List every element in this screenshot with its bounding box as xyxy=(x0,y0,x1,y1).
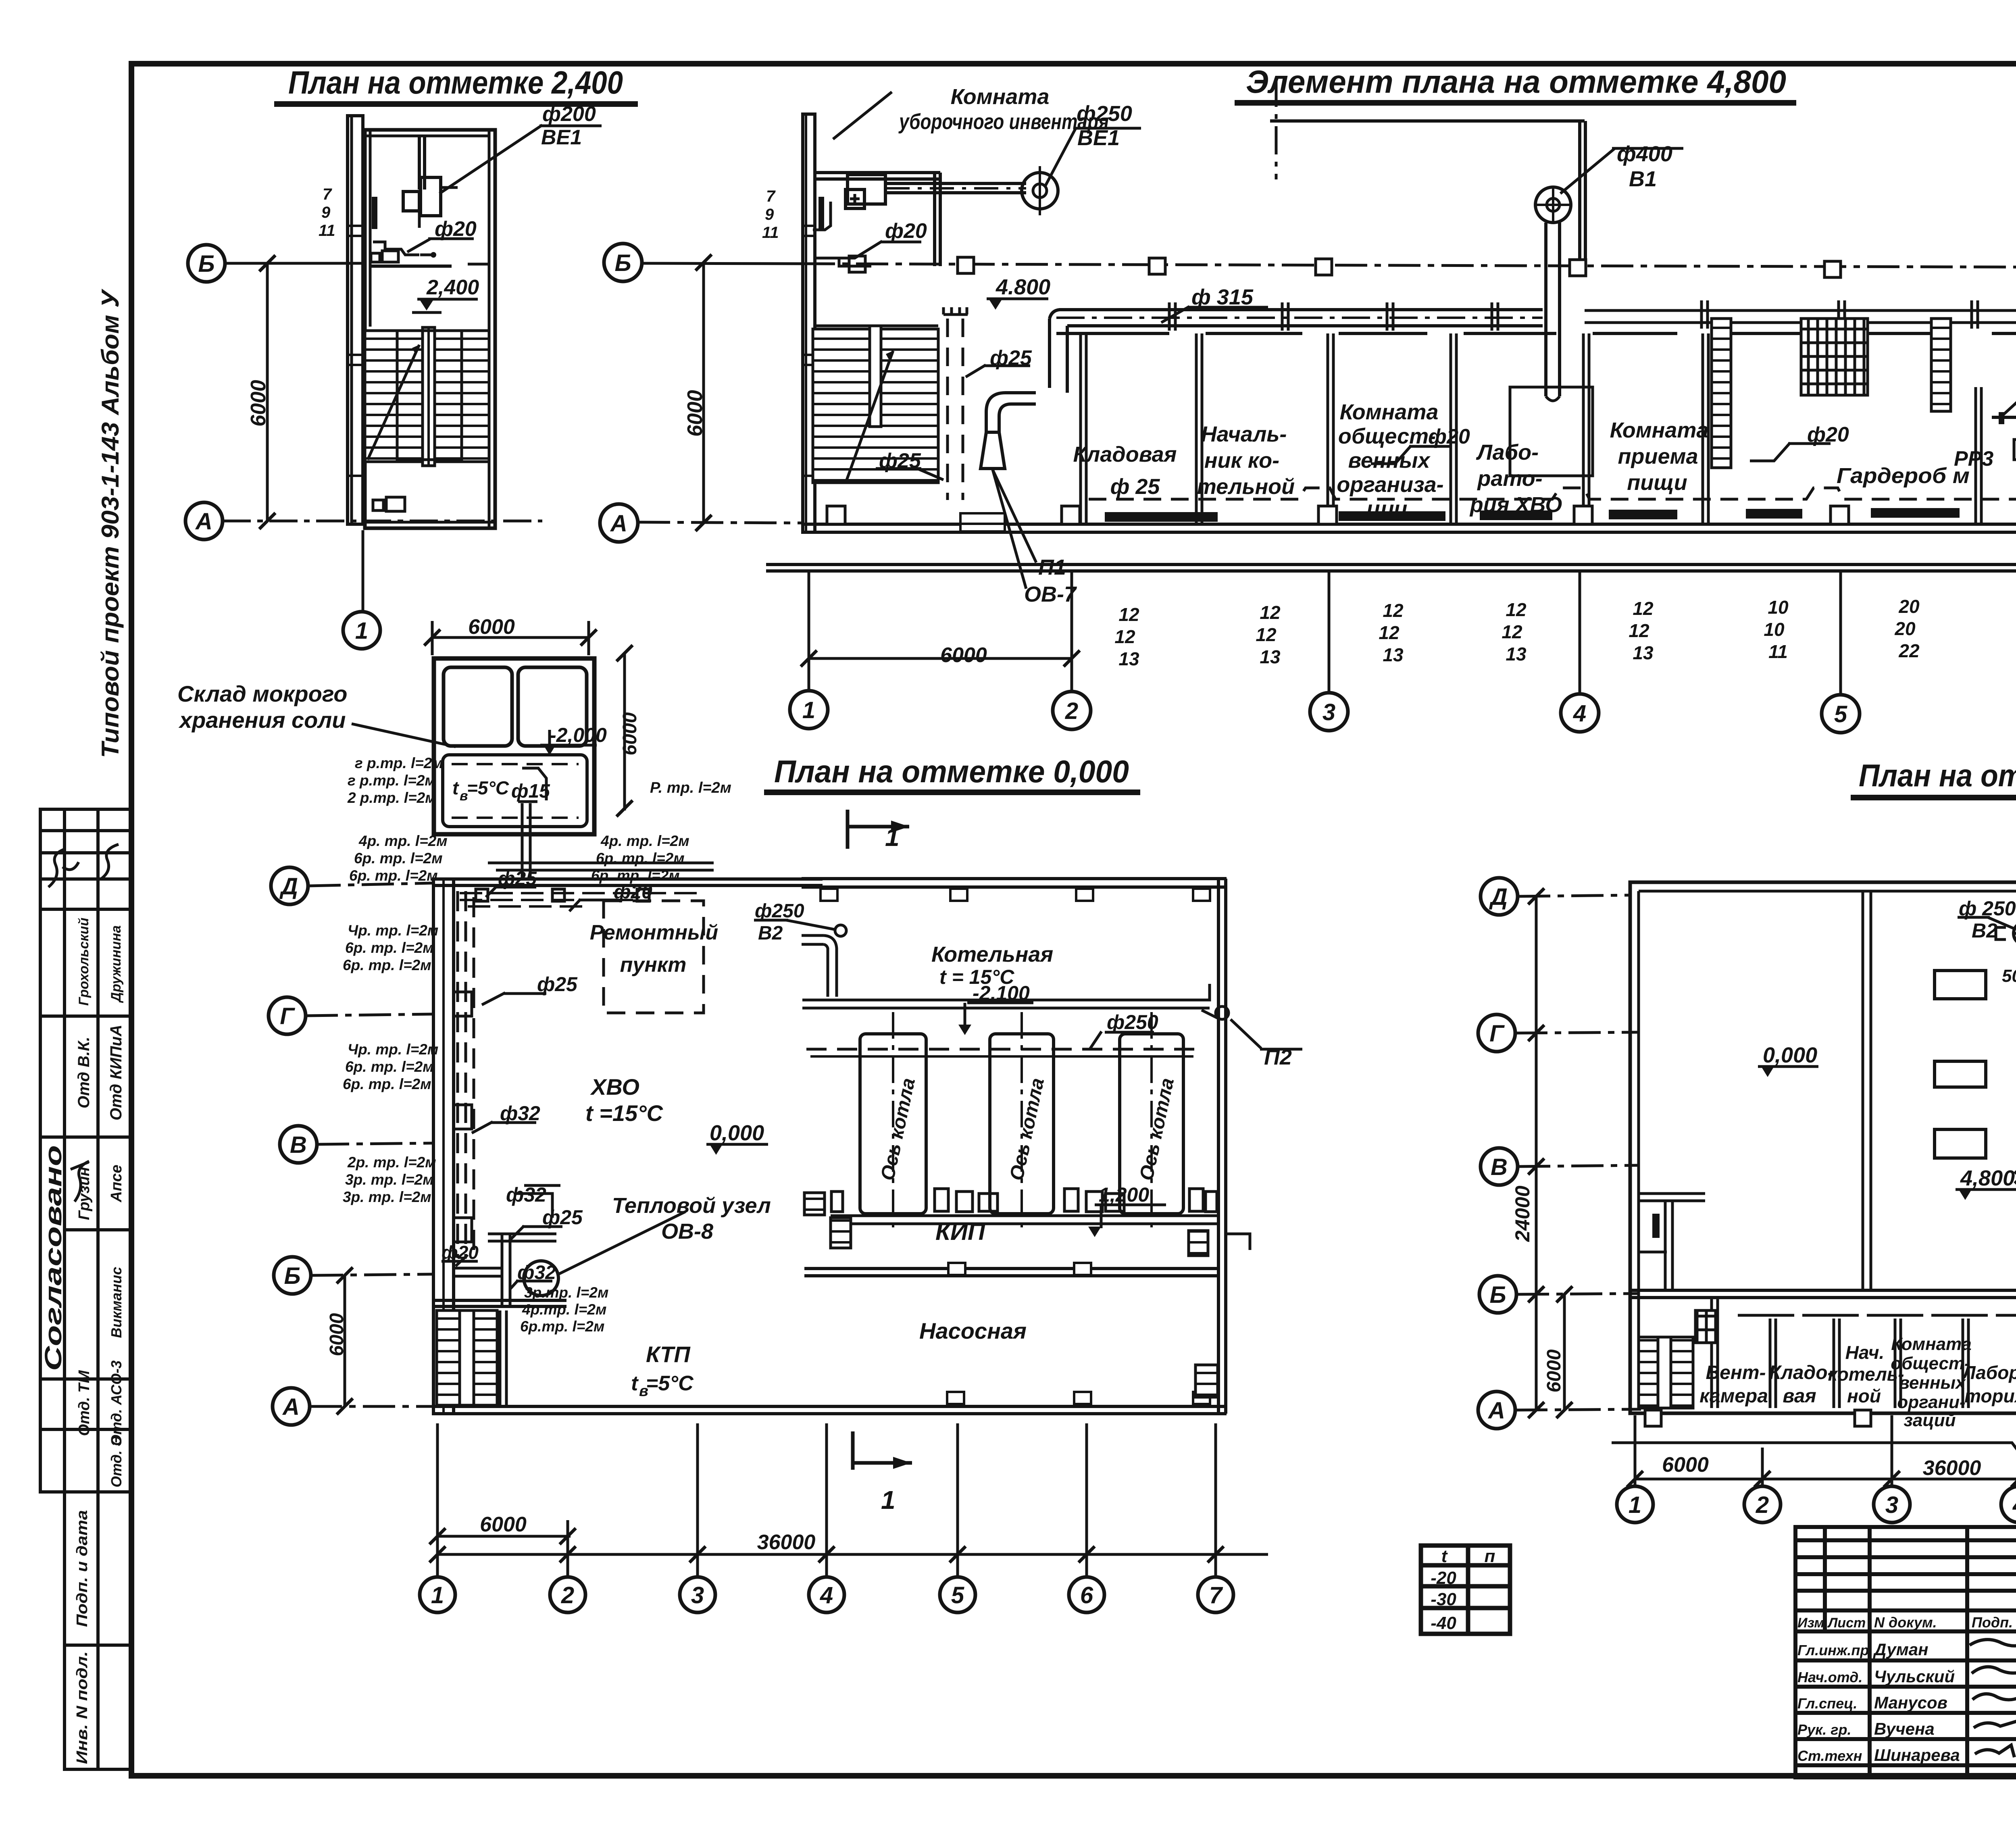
svg-text:3: 3 xyxy=(1885,1492,1898,1518)
svg-text:Г: Г xyxy=(280,1003,295,1029)
svg-text:В1: В1 xyxy=(1629,167,1657,191)
svg-text:4.800: 4.800 xyxy=(996,275,1050,299)
svg-text:4: 4 xyxy=(820,1582,833,1608)
svg-text:А: А xyxy=(195,508,212,535)
svg-text:органи-: органи- xyxy=(1897,1392,1965,1412)
svg-text:Думан: Думан xyxy=(1873,1640,1929,1659)
svg-text:6000: 6000 xyxy=(468,615,515,639)
svg-text:1: 1 xyxy=(881,1485,896,1514)
svg-text:12: 12 xyxy=(1629,620,1649,641)
svg-text:2: 2 xyxy=(1065,698,1078,724)
svg-text:4р. тр. l=2м: 4р. тр. l=2м xyxy=(358,833,448,849)
svg-text:12: 12 xyxy=(1118,604,1139,625)
svg-text:пищи: пищи xyxy=(1627,471,1687,495)
svg-text:-2,100: -2,100 xyxy=(973,982,1030,1004)
svg-text:13: 13 xyxy=(1633,642,1654,663)
svg-text:6000: 6000 xyxy=(326,1313,348,1356)
svg-text:3: 3 xyxy=(691,1582,704,1608)
svg-text:22: 22 xyxy=(1898,640,1920,661)
svg-text:2: 2 xyxy=(1756,1492,1769,1518)
svg-text:Гл.спец.: Гл.спец. xyxy=(1797,1695,1857,1712)
svg-text:Склад мокрого: Склад мокрого xyxy=(177,681,348,706)
svg-text:Шинарева: Шинарева xyxy=(1874,1746,1960,1764)
svg-text:А: А xyxy=(610,510,627,537)
svg-text:В: В xyxy=(1491,1154,1508,1180)
svg-text:В2: В2 xyxy=(758,923,783,944)
svg-text:6р. тр. l=2м: 6р. тр. l=2м xyxy=(596,850,685,867)
svg-text:В2: В2 xyxy=(1972,919,1997,942)
svg-text:0,000: 0,000 xyxy=(1763,1043,1817,1067)
svg-text:Насосная: Насосная xyxy=(919,1318,1027,1344)
svg-text:6000: 6000 xyxy=(619,712,641,755)
svg-text:ф 250: ф 250 xyxy=(1959,897,2016,920)
svg-text:Б: Б xyxy=(1489,1282,1506,1308)
svg-text:камера: камера xyxy=(1699,1385,1768,1407)
svg-text:общест-: общест- xyxy=(1891,1354,1970,1373)
svg-text:500: 500 xyxy=(2002,966,2016,986)
svg-text:ВЕ1: ВЕ1 xyxy=(1077,126,1120,150)
svg-text:ф20: ф20 xyxy=(435,217,477,241)
svg-text:Б: Б xyxy=(614,250,631,276)
svg-text:ф250: ф250 xyxy=(1107,1011,1158,1033)
svg-text:Чульский: Чульский xyxy=(1874,1667,1955,1686)
svg-text:6000: 6000 xyxy=(683,390,707,437)
svg-text:Лабо-: Лабо- xyxy=(1476,440,1539,465)
svg-text:6р. тр. l=2м: 6р. тр. l=2м xyxy=(343,1076,431,1092)
svg-text:Ремонтный: Ремонтный xyxy=(590,921,718,944)
svg-text:ВЕ1: ВЕ1 xyxy=(541,126,582,149)
svg-text:Кладовая: Кладовая xyxy=(1073,442,1177,467)
svg-text:тория: тория xyxy=(1964,1385,2016,1406)
svg-text:6000: 6000 xyxy=(247,380,270,427)
svg-text:Комната: Комната xyxy=(1340,400,1439,424)
svg-text:ХВО: ХВО xyxy=(590,1074,639,1100)
svg-text:20: 20 xyxy=(1898,596,1920,617)
svg-text:рато-: рато- xyxy=(1477,467,1542,491)
svg-text:вая: вая xyxy=(1783,1385,1816,1407)
svg-text:ф 315: ф 315 xyxy=(1191,285,1254,309)
svg-text:ф 25: ф 25 xyxy=(1110,475,1160,499)
svg-text:6: 6 xyxy=(1080,1582,1093,1608)
svg-text:-40: -40 xyxy=(1431,1613,1456,1633)
svg-text:Нач.: Нач. xyxy=(1845,1342,1885,1363)
svg-text:11: 11 xyxy=(762,224,779,242)
svg-text:ф20: ф20 xyxy=(442,1242,479,1263)
svg-text:6000: 6000 xyxy=(940,644,987,667)
svg-text:ф250: ф250 xyxy=(1077,102,1132,126)
svg-text:13: 13 xyxy=(1383,644,1404,665)
svg-text:ф20: ф20 xyxy=(1428,425,1470,448)
svg-text:приема: приема xyxy=(1618,444,1698,469)
svg-text:Изм.Лист: Изм.Лист xyxy=(1797,1615,1866,1631)
svg-text:хранения соли: хранения соли xyxy=(178,707,346,733)
svg-text:Рук. гр.: Рук. гр. xyxy=(1797,1721,1851,1738)
svg-text:Ст.техн: Ст.техн xyxy=(1797,1748,1862,1764)
svg-text:КИП: КИП xyxy=(935,1218,986,1245)
svg-text:9: 9 xyxy=(321,204,331,221)
svg-text:12: 12 xyxy=(1383,600,1404,621)
svg-text:-20: -20 xyxy=(1431,1568,1456,1588)
svg-text:0,000: 0,000 xyxy=(710,1121,764,1145)
svg-text:Согласовано: Согласовано xyxy=(40,1145,67,1371)
svg-text:ф25: ф25 xyxy=(990,346,1032,370)
svg-text:План на отметке 2,400: План на отметке 2,400 xyxy=(288,65,623,100)
svg-text:Отд КИПиА: Отд КИПиА xyxy=(107,1025,125,1120)
svg-text:В: В xyxy=(290,1132,307,1158)
svg-text:ф32: ф32 xyxy=(500,1102,540,1125)
svg-text:Котельная: Котельная xyxy=(931,942,1053,967)
svg-text:11: 11 xyxy=(1768,641,1788,662)
svg-text:2 р.тр. l=2м: 2 р.тр. l=2м xyxy=(347,790,436,806)
svg-text:Г: Г xyxy=(1489,1021,1505,1047)
svg-text:Вент-: Вент- xyxy=(1706,1362,1766,1383)
svg-text:12: 12 xyxy=(1260,602,1281,623)
svg-text:ции: ции xyxy=(1367,497,1408,521)
svg-text:пункт: пункт xyxy=(620,953,687,977)
svg-text:заций: заций xyxy=(1904,1410,1956,1430)
svg-text:ОВ-8: ОВ-8 xyxy=(661,1219,713,1244)
svg-text:6р.тр. l=2м: 6р.тр. l=2м xyxy=(520,1318,604,1335)
svg-text:Дружинина: Дружинина xyxy=(108,925,124,1003)
svg-text:КТП: КТП xyxy=(646,1342,691,1367)
svg-text:Ось котла: Ось котла xyxy=(1136,1076,1179,1183)
svg-text:Кладо-: Кладо- xyxy=(1769,1362,1834,1383)
svg-text:г р.тр. l=2м: г р.тр. l=2м xyxy=(355,755,443,771)
svg-text:венных: венных xyxy=(1899,1373,1966,1393)
svg-text:-2,000: -2,000 xyxy=(550,724,607,746)
svg-text:1: 1 xyxy=(1629,1492,1641,1518)
svg-text:12: 12 xyxy=(1379,622,1400,643)
svg-text:3р. тр. l=2м: 3р. тр. l=2м xyxy=(343,1189,431,1205)
svg-text:t: t xyxy=(1441,1546,1448,1566)
svg-text:ф25: ф25 xyxy=(537,973,578,996)
svg-text:ник ко-: ник ко- xyxy=(1204,448,1279,473)
svg-text:1: 1 xyxy=(802,697,815,723)
svg-text:Манусов: Манусов xyxy=(1874,1693,1947,1712)
svg-text:24000: 24000 xyxy=(1511,1185,1534,1242)
svg-text:6000: 6000 xyxy=(480,1513,527,1536)
svg-text:П1: П1 xyxy=(1038,555,1066,579)
svg-text:Комната: Комната xyxy=(1610,418,1709,442)
svg-text:3р. тр. l=2м: 3р. тр. l=2м xyxy=(345,1171,434,1188)
svg-text:=5°С: =5°С xyxy=(467,777,509,798)
svg-text:рия ХВО: рия ХВО xyxy=(1469,493,1562,517)
svg-text:ОВ-7: ОВ-7 xyxy=(1024,582,1077,606)
svg-text:1: 1 xyxy=(885,823,900,852)
svg-text:Викманис: Викманис xyxy=(108,1267,125,1338)
svg-text:36000: 36000 xyxy=(757,1531,816,1554)
svg-text:12: 12 xyxy=(1506,599,1527,620)
svg-text:10: 10 xyxy=(1764,619,1785,640)
svg-text:4: 4 xyxy=(1573,700,1586,727)
svg-text:t =15°С: t =15°С xyxy=(585,1100,664,1126)
svg-text:6р. тр. l=2м: 6р. тр. l=2м xyxy=(345,1058,434,1075)
svg-text:План на отметке 0,000: План на отметке 0,000 xyxy=(774,754,1129,789)
svg-text:Отд. ТМ: Отд. ТМ xyxy=(76,1370,93,1436)
svg-text:ф32: ф32 xyxy=(506,1183,546,1206)
svg-text:Чр. тр. l=2м: Чр. тр. l=2м xyxy=(348,922,438,939)
svg-text:2,400: 2,400 xyxy=(426,276,479,299)
svg-text:ф25: ф25 xyxy=(542,1206,583,1229)
svg-text:6р. тр. l=2м: 6р. тр. l=2м xyxy=(349,867,438,884)
svg-text:организа-: организа- xyxy=(1337,473,1443,497)
svg-text:Нач.отд.: Нач.отд. xyxy=(1797,1669,1862,1685)
svg-text:12: 12 xyxy=(1256,624,1277,645)
svg-text:2р. тр. l=2м: 2р. тр. l=2м xyxy=(347,1154,436,1171)
svg-text:6р. тр. l=2м: 6р. тр. l=2м xyxy=(343,957,431,973)
svg-text:7: 7 xyxy=(323,185,332,203)
svg-text:ф25: ф25 xyxy=(498,868,537,890)
svg-text:13: 13 xyxy=(1506,644,1527,665)
svg-text:Д: Д xyxy=(279,873,298,900)
svg-text:13: 13 xyxy=(1260,646,1281,667)
svg-text:12: 12 xyxy=(1502,621,1522,642)
svg-text:ф400: ф400 xyxy=(1617,142,1672,166)
svg-text:4: 4 xyxy=(2012,1492,2016,1518)
svg-text:Подп.: Подп. xyxy=(1972,1614,2013,1631)
svg-text:4р.тр. l=2м: 4р.тр. l=2м xyxy=(522,1301,606,1318)
svg-text:-30: -30 xyxy=(1431,1589,1456,1609)
svg-text:6р. тр. l=2м: 6р. тр. l=2м xyxy=(345,939,434,956)
svg-text:4р. тр. l=2м: 4р. тр. l=2м xyxy=(600,833,689,849)
svg-text:Отд. Э: Отд. Э xyxy=(108,1436,125,1487)
svg-text:Грохольский: Грохольский xyxy=(76,917,92,1006)
svg-text:Гл.инж.пр: Гл.инж.пр xyxy=(1797,1642,1869,1658)
svg-text:10: 10 xyxy=(1768,597,1789,618)
svg-text:Б: Б xyxy=(198,251,215,277)
svg-text:А: А xyxy=(282,1394,300,1420)
svg-text:11: 11 xyxy=(319,222,335,240)
svg-text:ф32: ф32 xyxy=(517,1262,556,1283)
svg-text:венных: венных xyxy=(1348,448,1431,473)
svg-text:ф20: ф20 xyxy=(885,219,927,243)
svg-text:План на отметке 4,800: План на отметке 4,800 xyxy=(1859,758,2016,793)
svg-text:ф20: ф20 xyxy=(1807,423,1849,446)
svg-text:Лабора: Лабора xyxy=(1962,1362,2016,1383)
svg-text:6000: 6000 xyxy=(1543,1349,1565,1392)
svg-text:6000: 6000 xyxy=(1662,1453,1709,1477)
svg-text:Р. тр. l=2м: Р. тр. l=2м xyxy=(650,779,731,796)
svg-text:Ось котла: Ось котла xyxy=(877,1076,920,1183)
svg-text:ф20: ф20 xyxy=(614,881,652,903)
svg-text:Комната: Комната xyxy=(951,85,1050,109)
svg-text:общест-: общест- xyxy=(1338,424,1436,448)
svg-text:=5°С: =5°С xyxy=(646,1372,694,1395)
svg-text:1: 1 xyxy=(355,618,368,644)
svg-text:3р.тр. l=2м: 3р.тр. l=2м xyxy=(524,1284,608,1301)
svg-text:Отд В.К.: Отд В.К. xyxy=(75,1037,93,1108)
svg-text:t: t xyxy=(631,1372,639,1395)
svg-text:5: 5 xyxy=(1834,701,1847,727)
svg-text:Отд. АСО-3: Отд. АСО-3 xyxy=(108,1360,125,1446)
svg-text:12: 12 xyxy=(1633,598,1654,619)
svg-text:П2: П2 xyxy=(1264,1045,1292,1069)
svg-text:36000: 36000 xyxy=(1923,1456,1981,1480)
svg-text:ф200: ф200 xyxy=(542,102,596,126)
svg-text:20: 20 xyxy=(1894,618,1916,639)
svg-text:t: t xyxy=(452,777,459,798)
svg-text:РР3: РР3 xyxy=(1954,447,1993,471)
svg-text:3: 3 xyxy=(1322,699,1335,725)
svg-text:А: А xyxy=(1487,1398,1505,1424)
svg-text:Комната: Комната xyxy=(1891,1334,1971,1354)
svg-text:Инв. N подл.: Инв. N подл. xyxy=(74,1651,91,1764)
svg-text:Вучена: Вучена xyxy=(1874,1719,1935,1738)
svg-text:Чр. тр. l=2м: Чр. тр. l=2м xyxy=(348,1041,438,1058)
svg-text:Началь-: Началь- xyxy=(1201,422,1287,446)
svg-text:13: 13 xyxy=(1118,648,1139,669)
svg-text:N докум.: N докум. xyxy=(1874,1614,1937,1631)
svg-text:Б: Б xyxy=(284,1263,300,1289)
svg-text:Апсе: Апсе xyxy=(108,1165,125,1203)
svg-text:Д: Д xyxy=(1489,884,1508,910)
svg-text:7: 7 xyxy=(766,187,776,205)
svg-text:Элемент плана на отметке: Элемент плана на отметке 4,800 xyxy=(1246,64,1786,100)
svg-text:7: 7 xyxy=(1209,1582,1223,1608)
svg-text:4,800: 4,800 xyxy=(1960,1166,2015,1190)
svg-text:ной: ной xyxy=(1847,1385,1881,1406)
svg-text:2: 2 xyxy=(561,1582,574,1608)
svg-text:ф250: ф250 xyxy=(755,900,804,922)
svg-text:1,200: 1,200 xyxy=(1099,1183,1149,1206)
svg-text:п: п xyxy=(1485,1546,1495,1566)
svg-text:Гардероб м: Гардероб м xyxy=(1837,464,1970,488)
svg-text:Типовой проект 903-1-143 Альбо: Типовой проект 903-1-143 Альбом У xyxy=(97,288,124,758)
svg-text:Ось котла: Ось котла xyxy=(1006,1076,1049,1183)
svg-text:ф15: ф15 xyxy=(511,781,550,802)
svg-text:г р.тр. l=2м: г р.тр. l=2м xyxy=(348,772,436,789)
svg-text:Тепловой узел: Тепловой узел xyxy=(612,1194,771,1218)
svg-text:ф25: ф25 xyxy=(879,449,921,473)
svg-text:тельной: тельной xyxy=(1197,475,1295,499)
svg-text:Подп. и дата: Подп. и дата xyxy=(74,1510,91,1627)
svg-text:6р. тр. l=2м: 6р. тр. l=2м xyxy=(354,850,443,867)
svg-text:12: 12 xyxy=(1114,626,1135,647)
svg-text:9: 9 xyxy=(765,206,774,223)
svg-text:1: 1 xyxy=(431,1582,444,1608)
svg-text:5: 5 xyxy=(951,1582,964,1608)
